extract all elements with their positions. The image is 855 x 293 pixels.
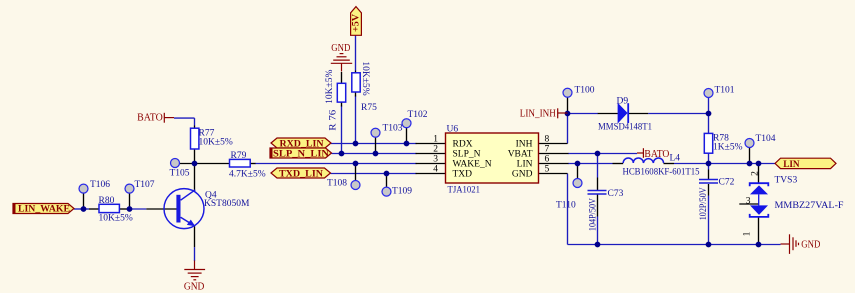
svg-text:WAKE_N: WAKE_N [453, 159, 492, 169]
svg-text:GND: GND [801, 240, 820, 251]
svg-text:4: 4 [433, 164, 438, 174]
svg-text:T102: T102 [408, 110, 428, 120]
svg-text:8: 8 [545, 134, 550, 144]
svg-text:6: 6 [545, 154, 550, 164]
svg-text:4.7K±5%: 4.7K±5% [229, 170, 266, 180]
svg-text:2: 2 [433, 144, 438, 154]
svg-text:1: 1 [743, 231, 753, 236]
svg-text:INH: INH [516, 139, 533, 149]
svg-text:HCB1608KF-601T15: HCB1608KF-601T15 [623, 168, 700, 178]
svg-text:TVS3: TVS3 [775, 176, 798, 186]
svg-text:U6: U6 [447, 125, 459, 135]
svg-text:T109: T109 [392, 186, 412, 196]
svg-text:10K±5%: 10K±5% [99, 214, 133, 224]
svg-text:3: 3 [746, 196, 751, 206]
svg-text:T107: T107 [135, 180, 155, 190]
svg-text:T110: T110 [556, 201, 576, 211]
svg-text:MMBZ27VAL-F: MMBZ27VAL-F [775, 201, 844, 211]
svg-text:BATO: BATO [137, 113, 163, 124]
svg-text:LIN_INH: LIN_INH [520, 108, 556, 119]
svg-text:104P/50V: 104P/50V [589, 198, 599, 231]
svg-text:R 76: R 76 [328, 109, 338, 130]
svg-text:MMSD4148T1: MMSD4148T1 [598, 123, 652, 133]
svg-text:+5V: +5V [352, 14, 362, 32]
svg-text:10K±5%: 10K±5% [199, 138, 233, 148]
svg-text:TXD_LIN: TXD_LIN [279, 169, 323, 179]
svg-text:BATO: BATO [644, 149, 669, 160]
svg-text:R80: R80 [99, 196, 115, 206]
svg-text:SLP_N: SLP_N [453, 149, 481, 159]
svg-text:T101: T101 [715, 86, 735, 96]
svg-text:T106: T106 [90, 180, 110, 190]
svg-text:R79: R79 [231, 151, 247, 161]
svg-text:2: 2 [751, 171, 761, 176]
svg-text:GND: GND [512, 169, 533, 179]
svg-text:TXD: TXD [453, 169, 473, 179]
svg-text:RDX: RDX [453, 139, 473, 149]
svg-text:L4: L4 [670, 154, 681, 164]
svg-text:1K±5%: 1K±5% [713, 142, 743, 152]
svg-text:10K±5%: 10K±5% [360, 61, 370, 95]
svg-text:T104: T104 [756, 134, 776, 144]
svg-text:R75: R75 [361, 103, 377, 113]
svg-text:VBAT: VBAT [508, 149, 533, 159]
svg-text:1: 1 [433, 134, 438, 144]
svg-text:T103: T103 [383, 124, 403, 134]
svg-text:D9: D9 [617, 97, 629, 107]
svg-text:LIN: LIN [783, 160, 800, 170]
svg-text:10K±5%: 10K±5% [325, 70, 335, 104]
svg-text:T100: T100 [575, 86, 595, 96]
svg-text:102P/50V: 102P/50V [699, 187, 709, 220]
svg-text:GND: GND [184, 281, 205, 292]
svg-text:5: 5 [545, 164, 550, 174]
svg-text:RXD_LIN: RXD_LIN [280, 139, 324, 149]
svg-text:T105: T105 [170, 169, 190, 179]
svg-text:SLP_N_LIN: SLP_N_LIN [273, 150, 329, 160]
svg-text:KST8050M: KST8050M [204, 199, 250, 209]
svg-text:7: 7 [545, 144, 550, 154]
svg-text:3: 3 [433, 154, 438, 164]
svg-text:GND: GND [331, 43, 350, 54]
svg-text:LIN_WAKE: LIN_WAKE [18, 204, 70, 214]
svg-text:LIN: LIN [517, 159, 533, 169]
svg-text:C73: C73 [608, 189, 624, 199]
svg-text:T108: T108 [327, 179, 347, 189]
svg-text:C72: C72 [719, 178, 735, 188]
svg-text:TJA1021: TJA1021 [448, 186, 481, 196]
